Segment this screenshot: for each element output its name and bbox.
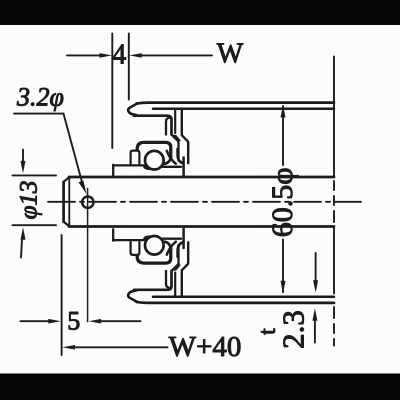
tube bottom wall inner line: [153, 295, 334, 298]
bearing housing lip under tube: [134, 116, 172, 135]
housing wall left line with chamfer step (lower): [172, 245, 179, 271]
dim W leader line: [141, 54, 212, 56]
outer race pocket left stroke: [165, 148, 171, 164]
seal channel inner wall: [166, 271, 170, 288]
shaft bottom line: [69, 225, 334, 228]
hole vertical centerline and extension for dim 5: [87, 189, 89, 322]
dark pocket left of ball: [143, 165, 150, 170]
shaft top line: [69, 176, 334, 179]
inner race sleeve top line right (lower): [163, 238, 182, 240]
dim phi13 lower extension line: [13, 224, 57, 226]
dim 2.3 up arrowhead: [312, 308, 317, 320]
labyrinth seal cap (lower): [137, 248, 171, 264]
svg-text:4: 4: [112, 40, 126, 71]
upper half of roller assembly: [113, 103, 334, 177]
svg-text:W+40: W+40: [169, 331, 242, 363]
right cut line x=334: [333, 57, 335, 346]
leader line to hole: [64, 114, 84, 187]
shaft chamfer top: [64, 177, 70, 182]
dim 4 left arrowhead: [100, 53, 113, 58]
inner race sleeve right flange: [182, 158, 185, 177]
housing wall right line with chamfer step (lower): [182, 242, 188, 296]
dim 60.5 down arrowhead: [281, 281, 286, 294]
outer race pocket left stroke (lower): [165, 242, 171, 258]
inner race sleeve top line left (lower): [113, 239, 145, 241]
housing chamfer dark fill (lower): [172, 264, 181, 271]
svg-text:t: t: [255, 328, 281, 335]
dim 60.5 lower line: [282, 240, 284, 293]
svg-text:60.5φ: 60.5φ: [266, 167, 299, 237]
extension line shaft end (dim 5 / W+40): [61, 235, 63, 355]
inner race sleeve left end face (lower): [112, 229, 114, 240]
tube bottom wall outer line: [137, 302, 335, 303]
dim 60.5 up arrowhead: [281, 105, 286, 118]
tube top wall inner line: [153, 108, 334, 111]
housing chamfer dark fill: [172, 135, 181, 142]
tube top wall outer line: [137, 103, 335, 104]
raceway curve under ball: [167, 151, 176, 164]
inner race sleeve left end face: [112, 165, 114, 176]
dim 2.3 down arrowhead: [313, 280, 318, 292]
housing wall right line with chamfer step: [182, 109, 188, 163]
dim 4 left arrow line: [67, 54, 101, 56]
center line (roller axis, dash-dot): [48, 201, 361, 203]
dim 60.5 upper line: [282, 106, 284, 165]
svg-text:φ13: φ13: [16, 181, 43, 220]
raceway curve under ball (lower): [167, 242, 176, 255]
shaft chamfer bottom: [64, 222, 70, 227]
dim 5 left arrow line: [21, 320, 50, 322]
inner race sleeve top line right: [163, 166, 182, 168]
labyrinth seal cap: [137, 142, 171, 158]
dim W+40 line: [74, 346, 168, 348]
svg-text:W: W: [217, 39, 244, 70]
svg-text:5: 5: [67, 306, 80, 335]
housing wall left line with chamfer step: [172, 135, 179, 161]
housing wall inner short line: [174, 109, 176, 133]
dim 2.3 up arrow line: [314, 321, 316, 343]
bearing ball (lower): [145, 236, 164, 255]
outer race pocket right stroke (lower): [178, 242, 184, 256]
inner race sleeve top line left: [113, 164, 145, 166]
bearing ball: [145, 151, 164, 170]
bearing housing lip over tube (lower): [134, 271, 172, 290]
spring pin hole 3.2 dia: [82, 197, 93, 208]
dim 5 right arrowhead: [89, 319, 102, 324]
dim phi13 down arrow line: [22, 150, 24, 162]
extension line right of dim 4: [128, 34, 130, 100]
inner race sleeve right flange (lower): [182, 229, 185, 248]
dim phi13 down arrowhead: [21, 161, 26, 173]
top black letterbox bar: [0, 0, 400, 25]
dim phi13 up arrowhead: [21, 227, 26, 239]
seal inner collar: [131, 151, 140, 165]
lower half of roller assembly (mirror): [113, 229, 334, 303]
dim phi13 up arrow line: [21, 240, 22, 258]
label 3.2 underline: [14, 113, 64, 115]
outer race pocket right stroke: [178, 149, 184, 163]
leader arrowhead at hole: [79, 180, 87, 194]
seal channel inner wall: [166, 118, 170, 135]
shaft chamfer edge line: [68, 178, 70, 227]
seal inner collar (lower): [131, 241, 140, 255]
dim 2.3 down arrow line: [315, 253, 317, 281]
svg-text:3.2φ: 3.2φ: [16, 83, 64, 112]
housing wall inner short line (lower): [174, 273, 176, 297]
shaft left end face: [62, 182, 65, 222]
bottom black letterbox bar: [0, 374, 400, 400]
dim 5 right arrow line: [100, 320, 141, 322]
dim 5 left arrowhead: [48, 319, 61, 324]
dim W+40 arrowhead: [62, 345, 75, 350]
tube end curl (beak) bottom-left: [128, 290, 137, 302]
tube end curl (beak) top-left: [128, 103, 137, 115]
extension line left of dim 4: [111, 34, 113, 149]
dim phi13 upper extension line: [13, 174, 57, 176]
dark pocket left of ball (lower): [143, 235, 150, 240]
dim 4 right arrowhead: [129, 53, 142, 58]
